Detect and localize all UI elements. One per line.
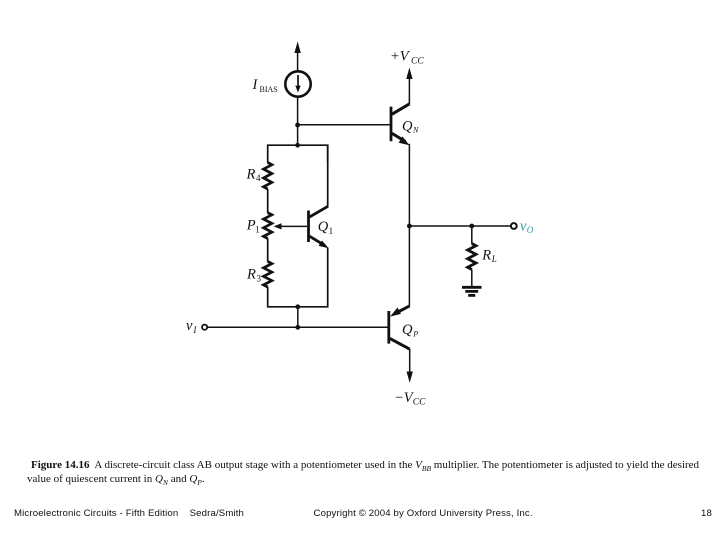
svg-text:Q: Q [318,219,329,235]
transistor Q1 [309,145,329,249]
potentiometer P1 [264,213,272,239]
current source I_BIAS [285,71,310,96]
svg-text:4: 4 [256,173,261,183]
arrow to -VCC [407,372,413,383]
svg-text:N: N [412,125,419,134]
node: multiplier bottom junction [295,304,300,309]
label R4 [246,166,262,183]
svg-text:3: 3 [257,273,262,283]
wire: multiplier top rail [268,145,328,163]
wire: QN emitter down to output node [408,144,410,226]
label QN [402,118,419,134]
svg-text:v: v [186,318,193,334]
footer [14,508,244,519]
wire: input junction to QP base [298,326,388,328]
svg-text:−V: −V [394,390,415,406]
wire: P1 to R3 [267,239,269,262]
caption [27,459,717,486]
wiper arrow of P1 (to Q1 base) [274,223,307,229]
svg-text:O: O [527,225,534,235]
arrow to +VCC [406,68,412,80]
node: multiplier top junction [295,143,300,148]
wire: trunk output node down to QP emitter [408,226,410,306]
wire: QN collector up [408,74,410,105]
terminal vO [511,223,517,229]
svg-text:Q: Q [402,322,413,338]
wire: node A down to multiplier top [297,125,299,146]
wire: output node to vO terminal [409,225,510,227]
svg-text:1: 1 [329,226,334,236]
resistor R4 [264,163,272,190]
svg-text:R: R [481,248,491,264]
label +VCC [390,49,424,67]
svg-text:CC: CC [413,397,426,407]
svg-text:1: 1 [255,225,259,235]
svg-text:I: I [192,325,197,335]
arrow inside current source [295,75,300,93]
svg-text:Q: Q [402,118,413,134]
transistor QP [389,306,410,349]
wire: input junction up to multiplier bottom [297,307,299,328]
terminal vI [202,325,207,330]
wire: QP collector down [409,349,411,377]
wire: multiplier bottom rail [268,248,328,307]
wire: top supply lead above bias source [297,47,299,71]
svg-text:R: R [246,266,256,282]
wire: vI terminal to input junction [207,326,297,328]
label I_BIAS [252,77,278,94]
node: output junction on trunk [407,224,412,229]
svg-text:P: P [412,329,418,338]
svg-text:I: I [252,77,259,93]
ground [462,287,482,295]
resistor R3 [264,262,272,288]
label P1 [246,218,260,235]
label R3 [246,266,262,283]
svg-text:P: P [246,218,256,234]
wire: node A to QN base [298,124,390,126]
node A (bias / QN base junction) [295,123,300,128]
label -VCC [394,390,426,408]
label vO [520,218,534,235]
node: RL junction [469,224,474,229]
svg-text:+V: +V [390,49,411,65]
svg-text:BIAS: BIAS [260,85,278,94]
svg-text:R: R [246,166,256,182]
wire: R4 to P1 [267,189,269,213]
label Q1 [318,219,333,236]
svg-text:L: L [491,254,497,264]
label vI [186,318,197,335]
arrow up at top of bias source [294,42,300,54]
svg-text:CC: CC [411,56,424,66]
label QP [402,322,418,338]
wire: RL junction down [471,226,473,244]
wire: bias source to node A [297,97,299,126]
resistor RL [468,244,476,270]
label RL [481,248,497,265]
node: input junction [295,325,300,330]
wire: RL to ground [471,270,473,287]
transistor QN [391,104,410,145]
